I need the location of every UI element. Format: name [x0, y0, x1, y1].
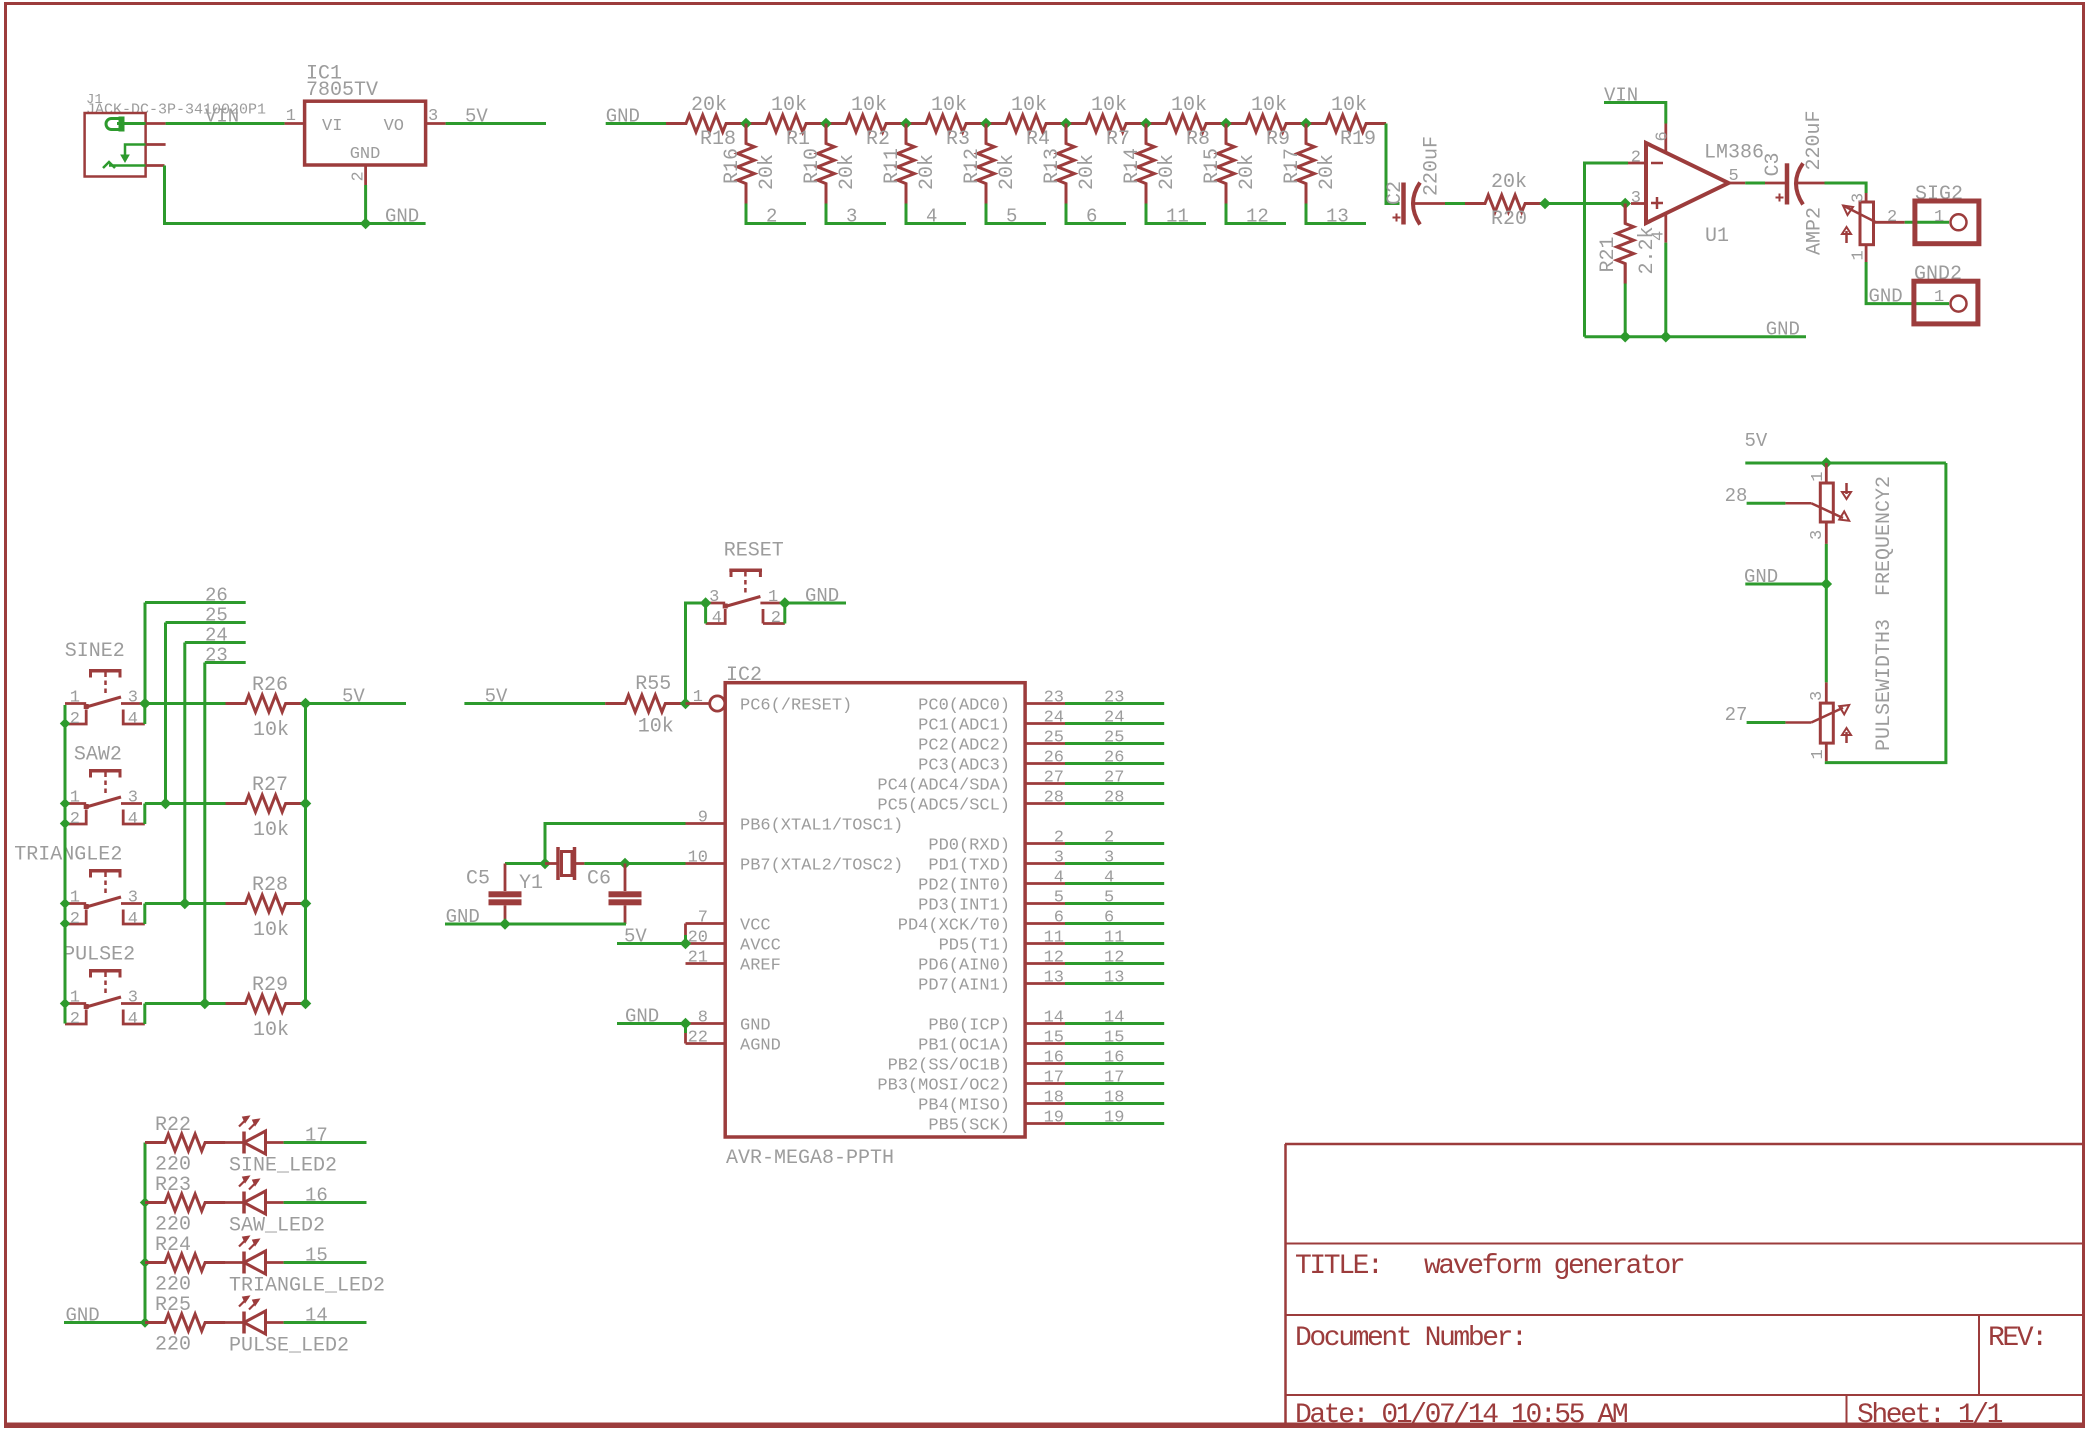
svg-text:4: 4 [1054, 869, 1064, 888]
resistor R18 20k [666, 94, 746, 151]
wire GND rail of crystal [445, 906, 626, 928]
wire net 3 from R10 [826, 204, 886, 228]
switch TRIANGLE2 [14, 844, 145, 930]
svg-text:10k: 10k [1171, 94, 1207, 117]
svg-text:20k: 20k [836, 154, 859, 190]
svg-text:FREQUENCY2: FREQUENCY2 [1873, 476, 1896, 596]
svg-text:R27: R27 [252, 774, 288, 797]
junction IC2 GND [680, 1018, 692, 1030]
pin 24 IC2 PC1(ADC1) [918, 709, 1065, 736]
svg-text:5V: 5V [342, 686, 365, 708]
pin 7 IC2 VCC [686, 909, 771, 936]
svg-text:1: 1 [70, 989, 80, 1008]
svg-text:U1: U1 [1705, 225, 1729, 248]
junction R21 GND [1619, 331, 1631, 343]
label 5V for pots [1745, 430, 1946, 463]
pin 2 AMP2 wiper wire to SIG2 [1887, 208, 1949, 227]
wire switch to R27 [145, 802, 226, 805]
svg-text:27: 27 [1725, 704, 1748, 726]
svg-text:2: 2 [350, 171, 369, 181]
junction crystal right [619, 858, 631, 870]
junction RESET left [700, 597, 712, 609]
wire net 11 from R14 [1146, 204, 1206, 228]
pin 6 op-amp V+ [1654, 124, 1673, 154]
junction net 23 [199, 998, 211, 1010]
resistor R8 10k [1146, 94, 1226, 151]
svg-text:24: 24 [1044, 709, 1064, 728]
junction op-amp pin4 GND [1660, 331, 1672, 343]
svg-text:R9: R9 [1266, 128, 1290, 151]
svg-text:10k: 10k [1251, 94, 1287, 117]
svg-text:LM386: LM386 [1704, 142, 1764, 165]
pin 26 IC2 PC3(ADC3) [918, 749, 1065, 776]
svg-text:10k: 10k [1331, 94, 1367, 117]
svg-text:PC1(ADC1): PC1(ADC1) [918, 717, 1010, 736]
wire net 26 from IC2 [1065, 749, 1164, 768]
svg-text:20k: 20k [756, 154, 779, 190]
resistor R23 220 [145, 1174, 225, 1237]
pin 13 IC2 PD7(AIN1) [918, 969, 1065, 996]
svg-text:VO: VO [384, 117, 404, 136]
svg-text:20k: 20k [1156, 154, 1179, 190]
svg-text:3: 3 [128, 689, 138, 708]
svg-text:PB5(SCK): PB5(SCK) [928, 1117, 1010, 1136]
svg-text:11: 11 [1166, 206, 1189, 228]
junction R26 output [300, 698, 312, 710]
pin 27 IC2 PC4(ADC4/SDA) [877, 769, 1065, 796]
svg-text:R21: R21 [1597, 236, 1620, 272]
pin 8 IC2 GND [686, 1009, 771, 1036]
svg-text:2: 2 [1054, 829, 1064, 848]
connector J1 JACK-DC-3P-3410020P1 [85, 92, 266, 177]
resistor R27 10k [226, 774, 306, 842]
svg-text:19: 19 [1104, 1109, 1124, 1128]
wire net 26 stub [145, 585, 246, 607]
wire GND-AGND link [684, 1024, 687, 1044]
LED TRIANGLE_LED2 [225, 1236, 385, 1298]
wire IC1 GND down [364, 185, 367, 224]
resistor R55 10k [605, 673, 685, 739]
svg-text:R28: R28 [252, 874, 288, 897]
wire net 27 to PULSEWIDTH3 wiper [1725, 704, 1786, 726]
junction op-amp input node [1619, 198, 1631, 210]
wire op-amp pin 4 to GND rail [1664, 243, 1667, 337]
title text Date [1295, 1400, 1628, 1429]
svg-text:10k: 10k [253, 819, 289, 842]
resistor R4 10k [986, 94, 1066, 151]
svg-text:PD6(AIN0): PD6(AIN0) [918, 957, 1010, 976]
svg-text:2: 2 [70, 710, 80, 729]
wire net 11 from IC2 [1065, 929, 1164, 948]
svg-text:1: 1 [70, 689, 80, 708]
wire VIN from J1 pin 1 [146, 106, 285, 128]
svg-text:24: 24 [1104, 709, 1124, 728]
svg-text:5V: 5V [465, 106, 488, 128]
LED PULSE_LED2 [225, 1296, 349, 1358]
wire net 23 from IC2 [1065, 689, 1164, 708]
svg-text:20k: 20k [1491, 171, 1527, 194]
svg-text:20k: 20k [996, 154, 1019, 190]
junction switch chain y=1003.5 [60, 998, 70, 1008]
svg-text:1: 1 [1934, 208, 1944, 227]
svg-text:5V: 5V [1745, 430, 1768, 452]
junction ladder node at x=746 [740, 118, 752, 130]
svg-text:3: 3 [1808, 530, 1827, 540]
pin 12 IC2 PD6(AIN0) [918, 949, 1065, 976]
svg-text:10k: 10k [1091, 94, 1127, 117]
wire net 3 from IC2 [1065, 849, 1164, 868]
svg-text:13: 13 [1104, 969, 1124, 988]
pin 11 IC2 PD5(T1) [939, 929, 1065, 956]
wire crystal to C6 [584, 862, 625, 865]
resistor R29 10k [226, 974, 306, 1042]
wire net 12 from R15 [1226, 204, 1286, 228]
junction 5V pot node [1821, 457, 1833, 469]
junction net 24 [179, 898, 191, 910]
svg-text:PD3(INT1): PD3(INT1) [918, 897, 1010, 916]
junction R20 output node [1539, 198, 1551, 210]
svg-text:1: 1 [1809, 472, 1828, 482]
wire net 19 from IC2 [1065, 1109, 1164, 1128]
pin 5 op-amp output [1729, 167, 1746, 186]
svg-text:GND: GND [1869, 286, 1903, 308]
wire op-amp pin3 stub [1631, 202, 1646, 205]
svg-text:4: 4 [128, 910, 138, 929]
svg-text:PC5(ADC5/SCL): PC5(ADC5/SCL) [877, 797, 1010, 816]
svg-text:2: 2 [70, 1010, 80, 1029]
resistor R24 220 [145, 1234, 225, 1297]
svg-text:20: 20 [688, 929, 708, 948]
junction switch chain y=723.5 [60, 718, 70, 728]
resistor R22 220 [145, 1114, 225, 1177]
svg-text:220: 220 [155, 1334, 191, 1357]
wire net 4 from R11 [906, 204, 966, 228]
svg-text:28: 28 [1044, 789, 1064, 808]
svg-text:R29: R29 [252, 974, 288, 997]
pin 20 IC2 AVCC [686, 929, 781, 956]
svg-text:C5: C5 [466, 868, 490, 891]
voltage regulator IC1 7805TV [305, 63, 426, 166]
capacitor C6 [587, 864, 642, 925]
pin 1 IC2 PC6(/RESET) [686, 688, 853, 716]
resistor R26 10k [226, 674, 306, 742]
svg-text:17: 17 [1044, 1069, 1064, 1088]
pin 4 op-amp GND [1650, 213, 1669, 242]
wire 5V bus of switch resistors [304, 704, 307, 1004]
svg-text:10: 10 [688, 849, 708, 868]
junction switch chain y=923.5 [60, 918, 70, 928]
svg-text:8: 8 [698, 1009, 708, 1028]
svg-text:23: 23 [205, 645, 228, 667]
svg-text:TRIANGLE_LED2: TRIANGLE_LED2 [229, 1275, 385, 1298]
pin 5 IC2 PD3(INT1) [918, 889, 1065, 916]
svg-text:11: 11 [1044, 929, 1064, 948]
svg-text:R55: R55 [635, 673, 671, 696]
pin 2 IC2 PD0(RXD) [928, 829, 1065, 856]
wire FREQUENCY2 pin3 to GND [1825, 522, 1828, 584]
junction GND node under IC1 [360, 218, 372, 230]
wire switch to R28 [145, 902, 226, 905]
svg-text:SINE2: SINE2 [65, 640, 125, 663]
svg-text:2: 2 [1104, 829, 1114, 848]
svg-text:AREF: AREF [740, 957, 781, 976]
pin 14 IC2 PB0(ICP) [928, 1009, 1065, 1036]
svg-text:R3: R3 [946, 128, 970, 151]
svg-text:PULSE2: PULSE2 [63, 944, 135, 967]
svg-text:25: 25 [1044, 729, 1064, 748]
svg-text:10k: 10k [771, 94, 807, 117]
wire switch common chain [64, 705, 67, 1024]
connector SIG2 [1915, 183, 1979, 244]
junction ladder node at x=906 [900, 118, 912, 130]
svg-text:3: 3 [1054, 849, 1064, 868]
svg-text:R10: R10 [801, 148, 824, 184]
svg-text:25: 25 [1104, 729, 1124, 748]
svg-text:3: 3 [1631, 189, 1641, 208]
svg-text:10k: 10k [253, 719, 289, 742]
svg-text:GND: GND [1766, 319, 1800, 341]
pin 22 IC2 AGND [686, 1029, 781, 1056]
svg-text:18: 18 [1044, 1089, 1064, 1108]
svg-text:2: 2 [766, 206, 777, 228]
label GND net at ladder input [606, 106, 666, 128]
svg-text:4: 4 [926, 206, 937, 228]
svg-text:C2: C2 [1384, 181, 1407, 205]
wire net 4 from IC2 [1065, 869, 1164, 888]
svg-text:5: 5 [1054, 889, 1064, 908]
svg-text:PD7(AIN1): PD7(AIN1) [918, 977, 1010, 996]
pin 4 IC2 PD2(INT0) [918, 869, 1065, 896]
svg-text:6: 6 [1104, 909, 1114, 928]
svg-text:25: 25 [205, 605, 228, 627]
svg-text:20k: 20k [1076, 154, 1099, 190]
svg-text:2: 2 [1631, 149, 1641, 168]
resistor R7 10k [1066, 94, 1146, 151]
svg-text:10k: 10k [253, 919, 289, 942]
svg-text:C3: C3 [1762, 152, 1785, 176]
svg-text:R16: R16 [721, 148, 744, 184]
wire net 28 from IC2 [1065, 789, 1164, 808]
wire PULSEWIDTH3 pin1 loop to 5V [1826, 463, 1946, 763]
svg-text:15: 15 [1044, 1029, 1064, 1048]
title block [1285, 1144, 2083, 1423]
svg-text:R12: R12 [961, 148, 984, 184]
junction ladder node at x=826 [820, 118, 832, 130]
svg-text:PULSEWIDTH3: PULSEWIDTH3 [1873, 619, 1896, 751]
svg-text:2.2k: 2.2k [1636, 226, 1659, 274]
wire 5V to AVCC [617, 926, 686, 948]
wire net 2 from IC2 [1065, 829, 1164, 848]
LED SINE_LED2 [225, 1116, 337, 1178]
wire op-amp output to C3 [1745, 182, 1765, 185]
resistor R10 20k [801, 124, 859, 204]
svg-text:1: 1 [693, 688, 703, 707]
wire net 16 from IC2 [1065, 1049, 1164, 1068]
pin 17 IC2 PB3(MOSI/OC2) [877, 1069, 1065, 1096]
wire GND to IC2 GND pin [617, 1006, 686, 1028]
wire net 27 from IC2 [1065, 769, 1164, 788]
wire net 26 vertical [144, 603, 147, 704]
svg-text:22: 22 [688, 1029, 708, 1048]
svg-text:6: 6 [1054, 909, 1064, 928]
svg-text:PB6(XTAL1/TOSC1): PB6(XTAL1/TOSC1) [740, 817, 903, 836]
pin 3 IC2 PD1(TXD) [928, 849, 1065, 876]
svg-text:R24: R24 [155, 1234, 191, 1257]
svg-text:R19: R19 [1340, 128, 1376, 151]
wire LED GND chain [144, 1143, 147, 1323]
svg-text:VIN: VIN [205, 106, 239, 128]
pin 3 IC1 VO [426, 107, 446, 126]
svg-text:7: 7 [698, 909, 708, 928]
wire GND rail of amplifier [1585, 319, 1807, 341]
junction ladder node at x=1306 [1300, 118, 1312, 130]
resistor R11 20k [881, 124, 939, 204]
pin 1 IC1 VI [285, 107, 305, 126]
wire 5V from IC1 VO [446, 106, 546, 128]
wire net 23 vertical [203, 663, 206, 1004]
pin 2 IC1 GND [350, 165, 369, 185]
pin 18 IC2 PB4(MISO) [918, 1089, 1065, 1116]
wire ladder output to C2 [1386, 124, 1400, 204]
wire net 12 from IC2 [1065, 949, 1164, 968]
junction R55 IC2 pin1 [680, 698, 692, 710]
svg-text:3: 3 [709, 588, 719, 607]
title text TITLE: waveform generator [1295, 1251, 1684, 1282]
resistor R19 10k [1306, 94, 1386, 151]
svg-text:PC2(ADC2): PC2(ADC2) [918, 737, 1010, 756]
svg-text:REV:: REV: [1988, 1323, 2046, 1354]
svg-text:26: 26 [1104, 749, 1124, 768]
crystal Y1 [519, 847, 584, 895]
pin 19 IC2 PB5(SCK) [928, 1109, 1065, 1136]
svg-text:11: 11 [1104, 929, 1124, 948]
svg-text:28: 28 [1104, 789, 1124, 808]
label FREQUENCY2 [1873, 476, 1896, 596]
svg-text:GND: GND [385, 206, 419, 228]
junction net 25 [160, 798, 172, 810]
wire net 25 from IC2 [1065, 729, 1164, 748]
svg-text:PB2(SS/OC1B): PB2(SS/OC1B) [888, 1057, 1010, 1076]
svg-text:SINE_LED2: SINE_LED2 [229, 1155, 337, 1178]
junction R27 output [300, 798, 312, 810]
svg-text:5: 5 [1729, 167, 1739, 186]
resistor R2 10k [826, 94, 906, 151]
svg-text:R25: R25 [155, 1294, 191, 1317]
svg-text:PC0(ADC0): PC0(ADC0) [918, 697, 1010, 716]
pin 16 IC2 PB2(SS/OC1B) [888, 1049, 1065, 1076]
wire net 15 from TRIANGLE_LED2 [284, 1245, 367, 1267]
svg-text:R4: R4 [1026, 128, 1050, 151]
pin 10 IC2 PB7(XTAL2/TOSC2) [686, 849, 904, 876]
op-amp U1 LM386 [1646, 142, 1764, 249]
wire GND down to PULSEWIDTH3 [1825, 584, 1828, 682]
svg-text:R23: R23 [155, 1174, 191, 1197]
wire switch to R26 [145, 702, 226, 705]
wire net 28 to FREQUENCY2 wiper [1725, 485, 1786, 507]
junction switch chain y=823.5 [60, 818, 70, 828]
svg-text:220uF: 220uF [1803, 110, 1826, 170]
svg-text:13: 13 [1326, 206, 1349, 228]
svg-text:R22: R22 [155, 1114, 191, 1137]
wire AMP2 pin1 to GND2 [1866, 245, 1949, 308]
svg-text:Document Number:: Document Number: [1295, 1323, 1525, 1354]
pin 9 IC2 PB6(XTAL1/TOSC1) [686, 809, 904, 836]
wire GND from J1 pin 3 [146, 166, 366, 224]
wire R20 to op-amp pin 3 [1545, 202, 1625, 205]
wire switch to R29 [145, 1002, 226, 1005]
wire net 5 from IC2 [1065, 889, 1164, 908]
resistor R13 20k [1041, 124, 1099, 204]
svg-text:PD4(XCK/T0): PD4(XCK/T0) [898, 917, 1010, 936]
svg-text:SAW2: SAW2 [74, 744, 122, 767]
microcontroller IC2 AVR-MEGA8-PPTH [725, 664, 1025, 1170]
svg-text:10k: 10k [1011, 94, 1047, 117]
svg-text:3: 3 [1808, 691, 1827, 701]
junction ladder node at x=1066 [1060, 118, 1072, 130]
svg-text:14: 14 [1044, 1009, 1064, 1028]
title text REV: [1988, 1323, 2046, 1354]
LED SAW_LED2 [225, 1176, 325, 1238]
svg-text:waveform generator: waveform generator [1424, 1251, 1684, 1282]
svg-text:20k: 20k [691, 94, 727, 117]
resistor R21 2.2k [1597, 204, 1659, 284]
resistor R1 10k [746, 94, 826, 151]
svg-text:6: 6 [1654, 131, 1673, 141]
svg-text:C6: C6 [587, 868, 611, 891]
svg-text:220uF: 220uF [1421, 136, 1444, 196]
junction C5 GND [499, 918, 511, 930]
svg-text:20k: 20k [916, 154, 939, 190]
svg-text:28: 28 [1725, 485, 1748, 507]
svg-text:12: 12 [1104, 949, 1124, 968]
wire net 24 from IC2 [1065, 709, 1164, 728]
junction LED chain y=1322.5 [140, 1317, 150, 1327]
svg-text:3: 3 [846, 206, 857, 228]
pin 23 IC2 PC0(ADC0) [918, 689, 1065, 716]
svg-text:3: 3 [128, 889, 138, 908]
svg-text:R20: R20 [1491, 208, 1527, 231]
wire RESET down to IC2 pin1 [686, 603, 706, 704]
wire net 5 from R12 [986, 204, 1046, 228]
switch SINE2 [65, 640, 145, 729]
title text Document Number: [1295, 1323, 1525, 1354]
svg-text:16: 16 [1104, 1049, 1124, 1068]
svg-text:GND: GND [805, 585, 839, 607]
svg-text:RESET: RESET [724, 540, 784, 563]
svg-text:AVCC: AVCC [740, 937, 781, 956]
svg-text:1: 1 [768, 588, 778, 607]
svg-text:PB1(OC1A): PB1(OC1A) [918, 1037, 1010, 1056]
svg-text:18: 18 [1104, 1089, 1124, 1108]
wire net 6 from IC2 [1065, 909, 1164, 928]
svg-text:10k: 10k [931, 94, 967, 117]
svg-text:R8: R8 [1186, 128, 1210, 151]
svg-text:21: 21 [688, 949, 708, 968]
svg-text:R13: R13 [1041, 148, 1064, 184]
wire net 25 vertical [164, 623, 167, 804]
resistor R20 20k [1465, 171, 1545, 231]
resistor R12 20k [961, 124, 1019, 204]
svg-text:26: 26 [1044, 749, 1064, 768]
svg-text:SAW_LED2: SAW_LED2 [229, 1215, 325, 1238]
resistor R9 10k [1226, 94, 1306, 151]
svg-text:1: 1 [1934, 288, 1944, 307]
svg-text:10k: 10k [851, 94, 887, 117]
svg-text:PD0(RXD): PD0(RXD) [928, 837, 1010, 856]
svg-text:10k: 10k [253, 1019, 289, 1042]
resistor R17 20k [1281, 124, 1339, 204]
svg-text:R15: R15 [1201, 148, 1224, 184]
